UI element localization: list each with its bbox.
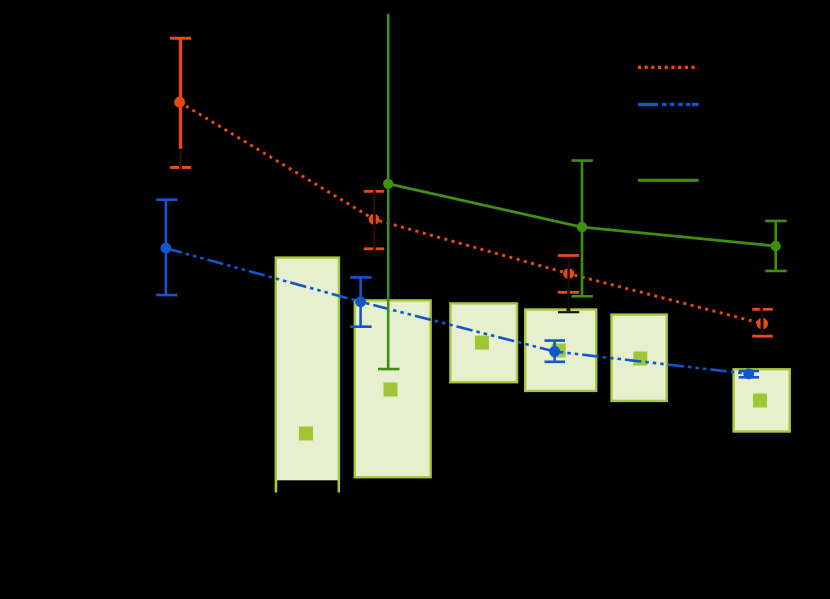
- green marker point 2: [577, 222, 587, 232]
- blue marker point 4: [743, 369, 754, 380]
- blue error bar point 3: [545, 341, 566, 362]
- square marker in box C: [475, 336, 489, 350]
- blue error bar point 2: [350, 277, 372, 326]
- square marker in box D: [552, 344, 566, 358]
- dark gap over red marker 3: [567, 268, 569, 281]
- box B (systematic band 2): [355, 300, 431, 477]
- black cover at box A bottom: [277, 480, 337, 494]
- dark total-error bar red point 4: [761, 308, 763, 336]
- dark gap over red marker 4: [761, 317, 764, 331]
- square marker in box B: [384, 383, 398, 397]
- blue dash-dot-dot trend line: [166, 248, 749, 374]
- red dotted trend line: [180, 102, 763, 323]
- red error bar point 4 (top cap split, bottom cap solid): [752, 309, 773, 336]
- green error bar point 2: [571, 161, 593, 297]
- dark total-error bar red point 2: [373, 190, 375, 251]
- blue error bar point 1: [156, 200, 177, 295]
- blue marker point 3: [549, 346, 560, 357]
- black gap in box D top border: [567, 308, 571, 311]
- box E (systematic band 5): [612, 315, 667, 401]
- red error bar point 1 (bright stat bar + caps, bottom cap split): [170, 38, 191, 167]
- square marker in box F: [753, 394, 767, 408]
- red marker point 3: [563, 268, 574, 279]
- blue marker point 2: [355, 296, 366, 307]
- red marker point 4: [757, 318, 768, 329]
- blue marker point 1: [161, 243, 172, 254]
- box A (systematic band 1): [276, 258, 339, 492]
- red marker point 2: [369, 214, 380, 225]
- square marker in box A: [299, 427, 313, 441]
- box D (systematic band 4): [525, 310, 596, 391]
- dark total-error bar red point 1: [179, 150, 181, 169]
- red error bar point 2 (split caps): [364, 191, 385, 249]
- legend sample blue dash-dot-dot: [638, 103, 699, 106]
- green solid trend line: [388, 184, 776, 246]
- square marker in box E: [633, 352, 647, 366]
- dark total-error bar red point 3: [568, 257, 570, 311]
- red marker point 1: [174, 97, 185, 108]
- green marker point 3: [771, 241, 781, 251]
- blue error bar point 4: [739, 371, 759, 377]
- box F (systematic band 6): [734, 369, 790, 431]
- green error bar point 3: [765, 221, 787, 271]
- black cap over box D: [558, 311, 579, 313]
- legend sample red dotted: [638, 66, 699, 69]
- green marker point 1: [383, 179, 393, 189]
- dark gap over red marker 2: [373, 213, 375, 226]
- box C (systematic band 3): [450, 303, 517, 382]
- legend sample green solid: [638, 179, 699, 182]
- green error bar point 1 (clipped at top): [378, 14, 399, 369]
- red error bar point 3 (top cap solid, bottom cap split): [558, 256, 580, 293]
